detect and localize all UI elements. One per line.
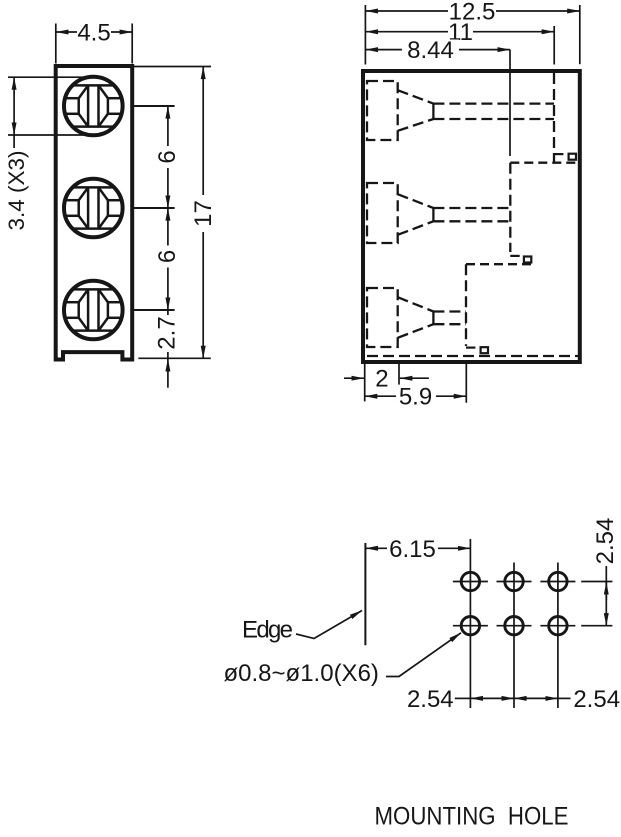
LED B1 lead bend (dashed vertical) (553, 73, 555, 162)
LED B1 lead end hook (554, 154, 576, 160)
dimension 5.9 (365, 364, 467, 403)
svg-text:Edge: Edge (242, 617, 293, 644)
svg-text:5.9: 5.9 (399, 384, 432, 411)
dimension 2.7 (bottom offset) (167, 310, 169, 388)
dimension 6 (upper pitch) (167, 106, 169, 208)
mounting hole H5 (505, 617, 523, 635)
svg-text:6: 6 (154, 250, 181, 263)
dimension 2 (lens depth) (344, 364, 429, 401)
dimension 2.54 (column pitch, right label) (514, 697, 571, 699)
dimension 4.5 (width) (56, 24, 132, 64)
PCB edge line (364, 543, 366, 645)
svg-text:2: 2 (375, 366, 388, 393)
LED B2 lead end hook (510, 256, 531, 263)
LED B1 hidden lens (dashed) (367, 81, 554, 140)
svg-text:MOUNTING HOLE: MOUNTING HOLE (375, 803, 569, 831)
LED B2 hidden lens (dashed) (367, 183, 510, 243)
svg-text:6: 6 (154, 150, 181, 163)
dimension 2.54 (row pitch, right) (581, 566, 612, 626)
svg-text:3.4 (X3): 3.4 (X3) (4, 150, 29, 230)
svg-text:2.54: 2.54 (573, 686, 620, 713)
svg-text:6.15: 6.15 (389, 536, 436, 563)
svg-text:ø0.8~ø1.0(X6): ø0.8~ø1.0(X6) (224, 660, 379, 687)
hole row centre lines (453, 582, 576, 626)
LED B2 lead route (466, 263, 532, 265)
svg-text:2.54: 2.54 (592, 518, 619, 565)
LED centre tick lines (132, 106, 174, 310)
dimension 6.15 (edge to first column) (365, 547, 470, 549)
mounting hole H3 (549, 572, 567, 590)
dimension 2.54 (column pitch, left label) (455, 697, 514, 699)
LED B3 lead end hook (466, 347, 488, 353)
hole column centre lines (470, 539, 558, 708)
LED B3 hidden lens (dashed) (367, 288, 466, 347)
svg-text:2.7: 2.7 (154, 316, 181, 349)
svg-text:8.44: 8.44 (407, 37, 454, 64)
LED lens A3 (bottom) (64, 281, 123, 340)
mounting hole H4 (461, 617, 479, 635)
mounting hole H6 (549, 617, 567, 635)
package body outline (front view) (56, 66, 133, 360)
bottom hidden line (standoff) (367, 355, 580, 357)
svg-text:17: 17 (190, 200, 217, 227)
dimension 12.5 (overall length) (365, 5, 579, 65)
dimension 6 (lower pitch) (167, 208, 169, 310)
dimension 3.4 (X3) lens diameter (8, 77, 93, 148)
mounting hole H2 (505, 572, 523, 590)
mounting hole H1 (461, 572, 479, 590)
LED lens A2 (middle) (64, 179, 123, 238)
svg-text:2.54: 2.54 (407, 686, 454, 713)
svg-text:4.5: 4.5 (77, 20, 110, 47)
LED B3 lead bend (dashed vertical) (465, 264, 467, 346)
package body outline (side view) (363, 71, 580, 362)
LED B1 lead route (510, 162, 576, 164)
dimension 11 (365, 26, 554, 65)
dimension 17 (overall height) (134, 67, 211, 359)
dimension 8.44 (365, 50, 510, 156)
LED B2 lead bend (dashed vertical) (509, 163, 511, 252)
LED lens A1 (top) (64, 77, 123, 136)
